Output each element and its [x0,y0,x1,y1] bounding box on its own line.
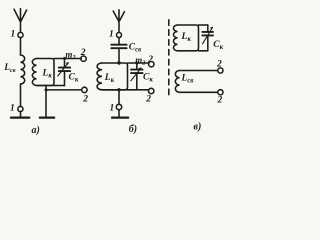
svg-text:Cк: Cк [69,73,79,84]
junction dot [117,88,120,91]
top wire to terminal 2 (circuit b) [128,62,149,64]
variable arrow through Ck (circuit a) [58,63,69,76]
top wire to Ck (circuit v) [199,24,208,26]
ground wire (circuit b) [118,90,120,105]
capacitor Ck bottom lead [136,74,138,90]
node 1 bottom (circuit b) [116,104,121,109]
svg-text:1: 1 [10,103,15,113]
wire node1 to Lsv [20,37,22,55]
svg-text:Lк: Lк [181,32,192,43]
node 1 top (circuit a) [18,32,23,37]
svg-text:Lсв: Lсв [181,73,194,84]
terminal 2 bottom (circuit v) [218,90,223,95]
bottom wire of tank (circuit a) [37,85,65,87]
ground bar (antenna branch a) [11,116,29,118]
svg-text:2: 2 [82,94,88,104]
svg-text:2: 2 [147,55,153,65]
terminal 2 top (circuit b) [149,61,154,66]
svg-text:2: 2 [145,95,151,105]
svg-text:2: 2 [216,60,222,70]
variable arrow through Ck (circuit b) [131,68,141,81]
terminal 2 top (circuit v) [218,68,223,73]
capacitor Ck bottom lead [64,72,66,86]
node 1 top (circuit b) [117,33,122,38]
svg-text:1: 1 [110,103,115,113]
tank loop right edge (circuit a) [37,59,55,86]
junction dot [63,57,66,60]
svg-text:1: 1 [11,30,16,40]
inductor Lsv (circuit v) [175,71,179,93]
coupling axis dashed line (circuit v) [168,20,170,95]
terminal 2 bottom (circuit a) [82,87,87,92]
svg-text:2: 2 [80,48,86,58]
svg-text:Lк: Lк [42,69,53,80]
svg-text:Cк: Cк [213,40,223,51]
junction dot [117,61,120,64]
antenna A (circuit b) [113,10,124,33]
svg-text:1: 1 [109,30,114,40]
svg-text:Cсв: Cсв [129,43,141,54]
inductor Lk (circuit a, left edge of tank loop) [32,59,36,86]
top wire to terminal 2 (circuit a) [54,58,81,60]
wire to terminal 2 bottom (circuit a) [46,89,82,91]
tank loop right edge (circuit v) [178,25,199,51]
junction dot [45,88,48,91]
capacitor Csv plates (circuit b) [111,45,126,49]
terminal 2 top (circuit a) [81,56,86,61]
svg-text:б): б) [129,124,137,135]
node 1 bottom (circuit a) [18,106,23,111]
terminal 2 bottom (circuit b) [149,88,154,93]
capacitor Ck top lead (circuit a) [64,59,66,68]
svg-text:m2: m2 [135,55,146,66]
svg-text:Cк: Cк [143,73,153,84]
wire Csv to tank (circuit b) [118,49,120,63]
svg-text:m2: m2 [65,50,76,62]
ground bar (circuit a tank) [40,116,54,118]
bottom wire to terminal 2 (circuit v) [180,91,218,93]
variable arrow through Ck (circuit v) [203,28,213,44]
svg-text:Lк: Lк [104,73,115,84]
svg-text:Lсв: Lсв [3,63,16,74]
ground wire (circuit a tank) [45,86,47,118]
svg-text:а): а) [32,125,40,136]
svg-text:2: 2 [217,96,223,106]
inductor Lsv (circuit a) [21,55,25,84]
junction dot [135,62,138,65]
bottom wire of tank (circuit b) [102,89,149,91]
capacitor Ck top lead (circuit v) [207,25,209,32]
antenna A (circuit a) [14,9,27,33]
svg-text:в): в) [194,122,202,133]
inductor Lk (circuit b, left edge of tank loop) [97,63,102,90]
top wire to terminal 2 (circuit v) [180,70,218,72]
capacitor Ck plates (circuit b) [131,70,143,74]
wire node1 to ground [118,110,120,117]
capacitor Ck plates (circuit v) [202,32,213,36]
capacitor Ck plates (circuit a) [59,68,70,72]
bottom wire to Ck (circuit v) [199,50,208,52]
inductor Lk (circuit v, left edge of tank loop) [173,25,177,51]
tank loop right edge (circuit b) [102,63,128,90]
wire Lsv to node 1 bottom [20,84,22,107]
wire node1 to ground [20,111,22,117]
ground bar (circuit b) [112,116,128,118]
capacitor Ck bottom lead [207,36,209,51]
wire node1 to Csv [118,38,120,45]
capacitor Ck top lead (circuit b) [136,63,138,69]
